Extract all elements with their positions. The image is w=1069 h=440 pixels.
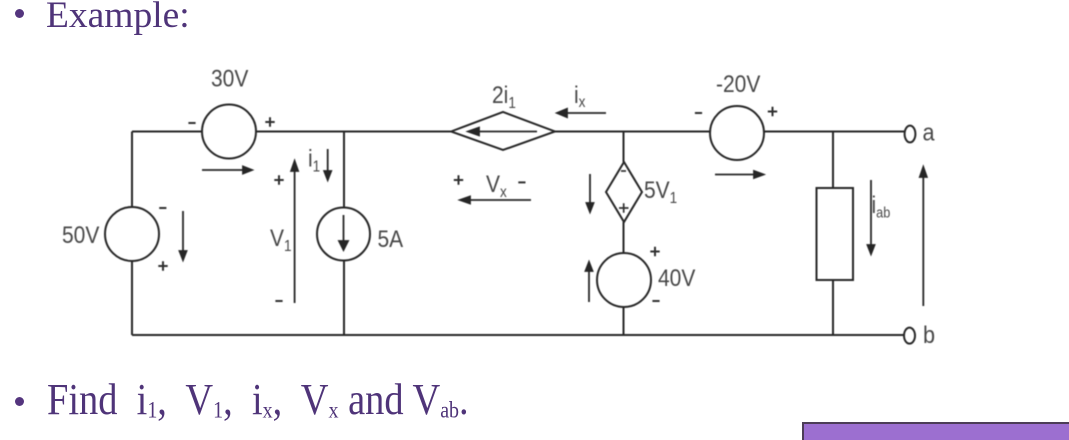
svg-text:b: b (923, 321, 935, 348)
svg-text:5V1: 5V1 (644, 177, 677, 208)
svg-text:5A: 5A (378, 226, 404, 253)
svg-text:2i1: 2i1 (492, 82, 516, 113)
svg-text:30V: 30V (211, 65, 248, 92)
svg-text:-20V: -20V (716, 71, 760, 98)
svg-text:50V: 50V (62, 222, 99, 249)
svg-text:iab: iab (872, 192, 891, 221)
svg-text:40V: 40V (658, 265, 695, 292)
svg-text:Vx: Vx (486, 171, 507, 202)
svg-text:ix: ix (574, 82, 586, 112)
svg-text:a: a (923, 118, 935, 145)
svg-text:i1: i1 (308, 145, 320, 176)
svg-text:V1: V1 (270, 225, 292, 256)
